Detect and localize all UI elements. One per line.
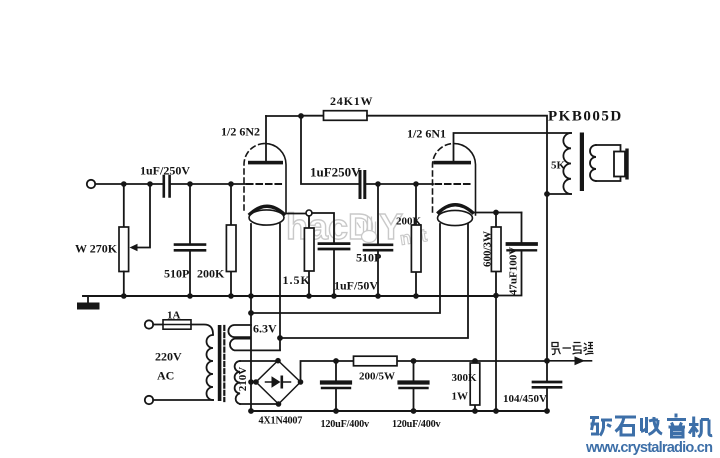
node: 1uF50V on bus [331, 293, 337, 299]
watermark madDoY [286, 206, 428, 249]
bridge node AC1 top [275, 358, 281, 364]
svg-text:6.3V: 6.3V [253, 322, 277, 336]
capacitor C3 1uF/50V plates [319, 244, 349, 249]
wire: 24K to B+ corner [367, 116, 547, 194]
node: 1.5K on bus [306, 293, 312, 299]
heater winding 6.3V loop1 [228, 325, 251, 337]
wire: V2 cathode to 600ohm node [473, 212, 522, 214]
svg-text:600/3W: 600/3W [482, 231, 494, 267]
triode V2 plate lead [454, 133, 572, 161]
wire: plate V1 up to node [266, 115, 301, 117]
svg-text:PKB005D: PKB005D [548, 109, 623, 125]
svg-text:200/5W: 200/5W [359, 371, 395, 383]
wire: fuse to primary [191, 325, 213, 335]
node: neg rail left [248, 408, 254, 414]
resistor R4 200K-2 body [411, 225, 421, 272]
svg-text:220V: 220V [155, 350, 182, 364]
heater pin V1 right [279, 224, 281, 350]
svg-text:510P: 510P [356, 251, 381, 265]
svg-text:200K: 200K [197, 267, 225, 281]
triode V2 plate bar [434, 161, 472, 165]
ground bus wire [83, 295, 496, 297]
triode V1 plate lead [265, 116, 267, 161]
AC input terminal top [145, 320, 153, 328]
wire: wiper riser [137, 184, 151, 248]
output transformer T2 primary winding [563, 133, 571, 194]
resistor R5 600/3W body [491, 227, 501, 272]
ground symbol [87, 296, 89, 303]
wire: node to 24K resistor [301, 115, 324, 117]
capacitor C2 510P plates [175, 245, 205, 251]
bridge node DC- left [253, 379, 259, 385]
negative rail [251, 410, 547, 412]
svg-text:1/2 6N1: 1/2 6N1 [407, 127, 446, 141]
svg-text:120uF/400v: 120uF/400v [392, 419, 441, 430]
resistor R7 300K legs [474, 361, 476, 411]
bridge DC- stub to ground column [251, 381, 256, 383]
bridge node DC+ right [298, 379, 304, 385]
resistor R4 200K-2 legs [415, 184, 417, 296]
wire: ground link from bus to negative rail [495, 296, 497, 412]
svg-text:4X1N4007: 4X1N4007 [259, 416, 303, 427]
svg-text:W 270K: W 270K [75, 242, 118, 256]
node: 510P on bus [187, 293, 193, 299]
bridge rectifier diamond [256, 361, 301, 405]
triode V2 cathode arc [439, 205, 473, 213]
node: 200K leg [228, 181, 234, 187]
wire: primary bottom to terminal [153, 399, 213, 401]
svg-text:1W: 1W [452, 391, 469, 403]
svg-text:300K: 300K [452, 372, 478, 384]
other channel arrow [547, 360, 592, 362]
speaker body [614, 152, 625, 177]
node: 510P-2 on bus [375, 293, 381, 299]
triode V1 plate bar [248, 161, 283, 165]
heater rail 1 [251, 224, 440, 313]
node: cap120 no1 top [333, 358, 339, 364]
svg-text:104/450V: 104/450V [503, 393, 547, 405]
node: 510P leg [187, 181, 193, 187]
heater pin V1 left / ground-neg column [250, 224, 252, 411]
wire: primary bottom lead [547, 193, 571, 195]
svg-text:1uF/250V: 1uF/250V [140, 164, 190, 178]
triode V2 1/2 6N1 envelope [433, 144, 455, 213]
power transformer T1 core bar [218, 325, 222, 401]
power transformer T1 core dashed [223, 326, 225, 401]
triode V1 base ellipse [249, 210, 284, 225]
capacitor C6 47uF100V legs [496, 213, 522, 296]
svg-text:www.crystalradio.cn: www.crystalradio.cn [585, 440, 713, 456]
capacitor C9 plates [533, 382, 561, 387]
node: plate V1 / 24K / coupling [298, 113, 304, 119]
resistor R6 200/5W body [354, 356, 398, 366]
speaker magnet bar [625, 149, 628, 180]
wire: coupling cap C4 drop and lead [301, 116, 358, 184]
node: 510P-2 leg [375, 181, 381, 187]
svg-text:1A: 1A [167, 310, 181, 322]
wire: secondary top lead [596, 145, 621, 152]
output transformer T2 core [580, 133, 584, 192]
wire: 210V top lead to bridge AC1 [240, 360, 278, 362]
cathode terminal circle [306, 210, 312, 216]
triode V2 grid dashed [436, 183, 472, 185]
input terminal J1 [87, 180, 95, 188]
wire: terminal to fuse [153, 324, 163, 326]
wire: DC+ rail [301, 361, 548, 382]
svg-text:5K: 5K [551, 160, 566, 172]
node: 200K-2 leg [413, 181, 419, 187]
svg-text:1/2 6N2: 1/2 6N2 [221, 125, 260, 139]
wire: pot bottom to ground bus [123, 272, 125, 297]
bridge node AC2 bottom [276, 401, 282, 407]
node: cap120 no2 top [411, 358, 417, 364]
label: other channel (Chinese) [552, 343, 594, 355]
capacitor C5 510P-2 plates [364, 245, 392, 250]
wire: C1 to grid of V1 with R-C legs [171, 183, 246, 185]
bridge internal diode [266, 381, 291, 383]
wire: secondary bottom lead [596, 177, 621, 182]
AC input terminal bottom [145, 396, 153, 404]
node: B+ to other channel [544, 358, 550, 364]
triode V1 cathode arc [250, 206, 284, 214]
node: ground link bottom [493, 408, 499, 414]
capacitor C9 104/450V legs [546, 361, 548, 411]
triode V2 base ellipse [438, 210, 473, 225]
svg-text:510P: 510P [164, 267, 189, 281]
node: 300K top [472, 358, 478, 364]
fuse F1 1A body [163, 320, 191, 329]
node: 104 bottom [544, 408, 550, 414]
HT winding 210V [235, 361, 240, 404]
capacitor C2 510P leg wires [189, 184, 191, 296]
node: DC- on ground column [248, 379, 254, 385]
node: 200K on bus [228, 293, 234, 299]
potentiometer W1 270K body [119, 227, 129, 272]
node: B+ transformer bottom [544, 191, 550, 197]
svg-text:1.5K: 1.5K [283, 273, 311, 287]
heater winding 6.3V loop2 [230, 339, 280, 351]
node: pot on bus [121, 293, 127, 299]
node: pot top tap [121, 181, 127, 187]
svg-text:200K: 200K [396, 216, 422, 228]
triode V1 grid dashed [247, 183, 284, 185]
resistor R1 200K leg wires [230, 184, 232, 296]
capacitor C8 120uF/400v no2 legs [413, 361, 415, 411]
logo: crystalradio blue Chinese characters [590, 414, 712, 438]
svg-text:210V: 210V [237, 367, 249, 392]
node: heater rail 1 junction [248, 310, 254, 316]
svg-text:1uF/50V: 1uF/50V [334, 279, 378, 293]
svg-text:120uF/400v: 120uF/400v [321, 419, 370, 430]
resistor R2 24K1W body [324, 111, 368, 121]
wire: down to potentiometer top [123, 184, 125, 227]
node: 300K bottom [472, 408, 478, 414]
node: ground link on bus [248, 293, 254, 299]
node: cathode V2 junction [493, 210, 499, 216]
node: wiper riser junction [147, 181, 153, 187]
wire: cathode terminal to 1uF50V [312, 213, 334, 243]
capacitor C8 plates [400, 380, 428, 384]
resistor R3 1.5K body [304, 228, 314, 271]
triode V1 1/2 6N2 envelope [244, 144, 265, 211]
node: cap120 no1 bottom [333, 408, 339, 414]
capacitor C7 plates [322, 380, 350, 384]
node: heater rail 2 junction [277, 335, 283, 341]
svg-text:AC: AC [157, 369, 174, 383]
resistor R7 300K body [470, 363, 480, 405]
triode V1 cathode lead to terminal [284, 213, 306, 215]
wire: C4 to grid V2 [366, 183, 433, 185]
wire: B+ down to supply rail [546, 194, 548, 361]
svg-text:1uF250V: 1uF250V [310, 165, 361, 180]
resistor R3 1.5K legs [308, 216, 310, 296]
capacitor C4 1uF250V plates [360, 172, 365, 198]
node: 200K-2 on bus [413, 293, 419, 299]
capacitor C5 510P-2 legs [377, 184, 379, 296]
wire: input to coupling cap C1 [95, 183, 163, 185]
potentiometer W1 wiper arrow [130, 244, 138, 251]
output transformer T2 secondary winding [590, 145, 596, 181]
capacitor C1 1uF/250V plates [164, 176, 170, 197]
svg-text:24K1W: 24K1W [330, 94, 373, 108]
power transformer T1 primary winding 220V [207, 335, 213, 400]
heater rail 2 [280, 224, 468, 338]
wire: 1uF50V bottom leg [333, 250, 335, 296]
capacitor C6 47uF100V plates [508, 242, 537, 246]
wire: 210V bottom lead to bridge AC2 [240, 403, 279, 405]
resistor R1 200K body [226, 225, 236, 272]
capacitor C7 120uF/400v no1 legs [335, 361, 337, 411]
node: cap120 no2 bottom [411, 408, 417, 414]
fuse F1 internal line [163, 324, 191, 326]
resistor R5 600/3W legs [495, 213, 497, 296]
node: bus right end [493, 293, 499, 299]
svg-text:47uF100V: 47uF100V [508, 247, 520, 295]
